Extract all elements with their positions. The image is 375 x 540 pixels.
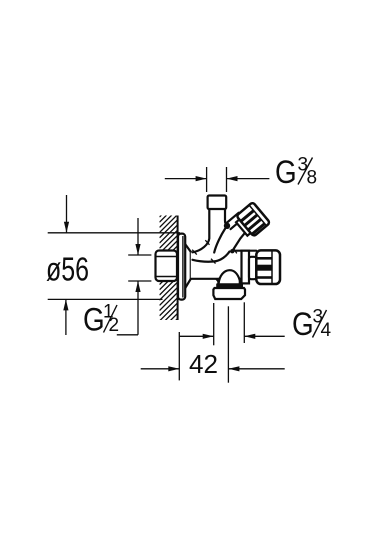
svg-text:G: G: [83, 303, 105, 338]
svg-text:G: G: [292, 307, 314, 342]
svg-text:42: 42: [189, 349, 218, 379]
svg-text:G: G: [275, 155, 297, 190]
svg-text:8: 8: [307, 168, 318, 189]
svg-text:ø56: ø56: [46, 251, 89, 288]
svg-text:4: 4: [321, 320, 332, 341]
